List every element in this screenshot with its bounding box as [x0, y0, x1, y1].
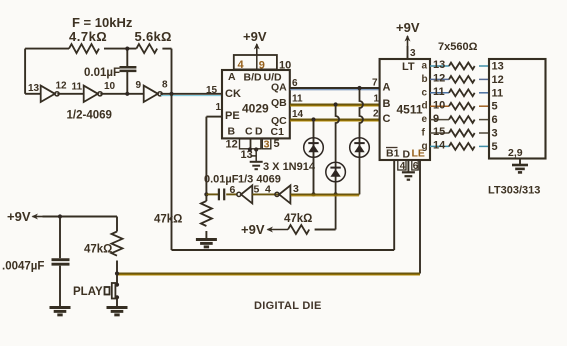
resistor R9 560 Ohm segment e	[449, 116, 475, 123]
resistor R3 47kOhm to ground	[154, 194, 212, 238]
wire resistor to display pin 5	[479, 145, 489, 147]
resistor R4 47kOhm	[284, 213, 336, 234]
svg-text:C1: C1	[271, 126, 285, 138]
wire vertical from QC to D1	[313, 120, 315, 195]
svg-text:3: 3	[410, 48, 416, 59]
svg-text:5.6kΩ: 5.6kΩ	[135, 29, 172, 44]
ground under display	[512, 159, 528, 173]
svg-text:11: 11	[492, 87, 504, 99]
pin box 4 and 9	[234, 55, 277, 71]
node top-wire / C1 junction	[125, 47, 129, 51]
svg-text:14: 14	[292, 109, 304, 120]
svg-text:15: 15	[433, 126, 445, 138]
svg-text:12: 12	[433, 73, 445, 85]
node C2 junction	[58, 214, 62, 218]
svg-text:a: a	[422, 61, 428, 72]
svg-text:1/3 4069: 1/3 4069	[238, 174, 281, 186]
svg-text:LT: LT	[402, 61, 415, 73]
svg-text:8: 8	[162, 80, 168, 91]
resistor R10 560 Ohm segment f	[449, 130, 475, 137]
ground under 4029	[250, 162, 263, 169]
svg-text:4: 4	[400, 161, 406, 172]
svg-text:c: c	[422, 87, 428, 98]
wire segment e to resistor	[430, 119, 449, 121]
wire resistor to display pin 12	[479, 78, 489, 80]
IC U3 4511 decoder	[380, 59, 430, 161]
svg-text:2,9: 2,9	[508, 147, 523, 159]
svg-text:4511: 4511	[397, 103, 423, 117]
svg-text:13: 13	[433, 59, 445, 71]
node R10/PLAY/LE junction	[115, 271, 119, 275]
wire QC (pin14 to 4511 pin2)	[290, 119, 380, 121]
svg-text:B: B	[383, 98, 391, 110]
wire resistor to display pin 3	[479, 132, 489, 134]
wire segment c to resistor	[430, 92, 449, 94]
svg-text:11: 11	[72, 82, 83, 93]
switch S1 PLAY pushbutton	[73, 274, 119, 308]
svg-text:7x560Ω: 7x560Ω	[438, 41, 478, 53]
svg-text:D: D	[403, 149, 411, 161]
svg-text:+9V: +9V	[241, 222, 265, 237]
svg-text:6: 6	[492, 114, 498, 126]
svg-text:3: 3	[492, 128, 498, 140]
wire pin8 to CK pin15	[160, 93, 222, 95]
node PE/C3/R3 junction	[204, 192, 208, 196]
svg-text:QB: QB	[271, 97, 287, 109]
wire segment f to resistor	[430, 132, 449, 134]
power +9V at 4029	[243, 29, 267, 55]
svg-text:LT303/313: LT303/313	[488, 185, 540, 197]
svg-text:1: 1	[216, 102, 222, 113]
svg-text:0.01µF: 0.01µF	[84, 67, 120, 79]
svg-text:3: 3	[264, 139, 270, 151]
resistor R7 560 Ohm segment c	[449, 89, 475, 96]
wire 12 to 11	[57, 93, 83, 95]
svg-text:10: 10	[433, 99, 445, 111]
pin box 4 under 4511	[398, 160, 406, 172]
svg-text:C: C	[245, 126, 253, 138]
wire vertical from QB with hop over QC	[336, 105, 340, 230]
svg-text:D: D	[255, 126, 263, 138]
svg-text:47kΩ: 47kΩ	[284, 213, 312, 225]
svg-text:9: 9	[433, 113, 439, 125]
power +9V bottom left	[7, 209, 117, 224]
node pin8 / feedback junction	[169, 92, 173, 96]
resistor R11 560 Ohm segment g	[449, 143, 475, 150]
node QB junction	[334, 102, 338, 106]
svg-text:e: e	[422, 114, 428, 125]
inverter U1B pins 11-10	[72, 81, 116, 102]
svg-text:6: 6	[230, 184, 236, 196]
svg-text:5: 5	[274, 138, 280, 150]
wire segment g to resistor	[430, 145, 449, 147]
inverter U1C pins 9-8	[136, 80, 169, 103]
wire pin5 to pin4	[252, 193, 279, 195]
wire row1 input	[25, 93, 41, 95]
wire resistor to display pin 13	[479, 65, 489, 67]
svg-text:+9V: +9V	[396, 20, 420, 35]
wire LE to PLAY node (long run)	[118, 160, 420, 275]
svg-text:10: 10	[104, 81, 116, 92]
svg-text:15: 15	[206, 85, 218, 96]
resistor R2 5.6kΩ	[135, 29, 172, 53]
ground under R3	[196, 240, 217, 247]
pin box 6 under 4511	[412, 160, 419, 172]
pin boxes under 4029 (12,13,3,5 to ground)	[226, 138, 280, 162]
display LT303/313	[489, 59, 546, 159]
node D1/output line junction	[311, 192, 315, 196]
svg-text:+9V: +9V	[243, 29, 267, 44]
node QA junction	[357, 86, 361, 90]
svg-text:12: 12	[226, 139, 238, 151]
resistor R5 560 Ohm segment a	[449, 63, 475, 70]
svg-text:B/D: B/D	[244, 72, 263, 84]
node D2/output line junction	[334, 192, 338, 196]
svg-text:A: A	[228, 71, 236, 83]
svg-text:QA: QA	[271, 82, 287, 94]
svg-text:13: 13	[28, 83, 40, 94]
power +9V at 4511 LT	[396, 20, 420, 59]
wire QA (pin6 to 4511 pin7)	[290, 87, 380, 89]
diode D2 1N914	[326, 162, 346, 182]
svg-text:1/2-4069: 1/2-4069	[67, 110, 112, 122]
wire resistor to display pin 5	[479, 105, 489, 107]
capacitor C2 .0047uF	[2, 217, 70, 308]
svg-text:7: 7	[372, 78, 378, 89]
wire pin3 to diode outputs	[290, 193, 359, 195]
svg-text:11: 11	[292, 94, 303, 105]
svg-text:DIGITAL DIE: DIGITAL DIE	[254, 300, 322, 312]
svg-text:9: 9	[136, 80, 142, 91]
svg-text:PLAY: PLAY	[73, 286, 103, 298]
svg-text:F = 10kHz: F = 10kHz	[72, 15, 133, 30]
svg-text:4.7kΩ: 4.7kΩ	[69, 29, 107, 44]
inverter U1A 1/2-4069 pins 13-12	[28, 81, 67, 103]
inverter U1D pins 6-5 (points left)	[230, 184, 260, 204]
svg-text:C: C	[383, 113, 391, 125]
svg-text:b: b	[422, 74, 428, 85]
svg-text:5: 5	[492, 101, 498, 113]
wire resistor to display pin 6	[479, 119, 489, 121]
svg-text:A: A	[383, 82, 391, 94]
svg-text:12: 12	[56, 81, 68, 92]
svg-text:47kΩ: 47kΩ	[84, 244, 112, 256]
svg-text:12: 12	[492, 74, 504, 86]
svg-text:g: g	[422, 141, 428, 152]
svg-text:3 X 1N914: 3 X 1N914	[263, 161, 316, 173]
svg-text:B1: B1	[386, 148, 400, 160]
wire 10 to 9	[100, 93, 143, 95]
svg-text:4: 4	[265, 184, 271, 196]
inverter U1E pins 4-3 (points left)	[265, 183, 299, 203]
svg-text:CK: CK	[225, 88, 241, 100]
node QC junction	[311, 117, 315, 121]
node C1 / row1 junction	[125, 92, 129, 96]
svg-text:PE: PE	[225, 110, 240, 122]
svg-text:4029: 4029	[242, 102, 269, 116]
capacitor C3 0.01uF	[204, 174, 239, 201]
wire oscillator feedback top	[25, 49, 171, 94]
power +9V feed via R4	[241, 222, 288, 237]
resistor R8 560 Ohm segment d	[449, 103, 475, 110]
ground under C2	[50, 308, 71, 315]
wire resistor to display pin 11	[479, 92, 489, 94]
wire B1 to oscillator (long run)	[172, 94, 395, 250]
svg-text:B: B	[228, 126, 236, 138]
svg-text:14: 14	[433, 140, 446, 152]
wire PE pin1 branch	[206, 117, 222, 195]
diode D3 1N914	[350, 138, 370, 158]
wire vertical from QA with hops over QB,QC	[360, 88, 364, 194]
IC U2 4029 counter	[222, 70, 290, 138]
svg-text:+9V: +9V	[7, 209, 31, 224]
ground under PLAY	[107, 308, 128, 315]
svg-text:6: 6	[413, 161, 419, 172]
capacitor C1 0.01uF	[84, 49, 136, 94]
diode D1 1N914	[304, 138, 324, 158]
svg-text:47kΩ: 47kΩ	[154, 214, 182, 226]
wire segment b to resistor	[430, 78, 449, 80]
wire segment d to resistor	[430, 105, 449, 107]
svg-text:5: 5	[492, 141, 498, 153]
svg-text:3: 3	[293, 183, 299, 195]
resistor R6 560 Ohm segment b	[449, 76, 475, 83]
wire QB (pin11 to 4511 pin1)	[290, 104, 380, 106]
svg-text:.0047µF: .0047µF	[2, 261, 44, 273]
svg-text:6: 6	[292, 78, 298, 89]
resistor R1 4.7kΩ	[69, 29, 107, 53]
svg-text:d: d	[422, 101, 428, 112]
resistor R10 47kOhm	[84, 217, 123, 274]
svg-text:11: 11	[433, 86, 445, 98]
svg-text:2: 2	[373, 109, 379, 120]
ground under 4511	[402, 160, 415, 180]
wire segment a to resistor	[430, 65, 449, 67]
svg-text:13: 13	[492, 61, 504, 73]
